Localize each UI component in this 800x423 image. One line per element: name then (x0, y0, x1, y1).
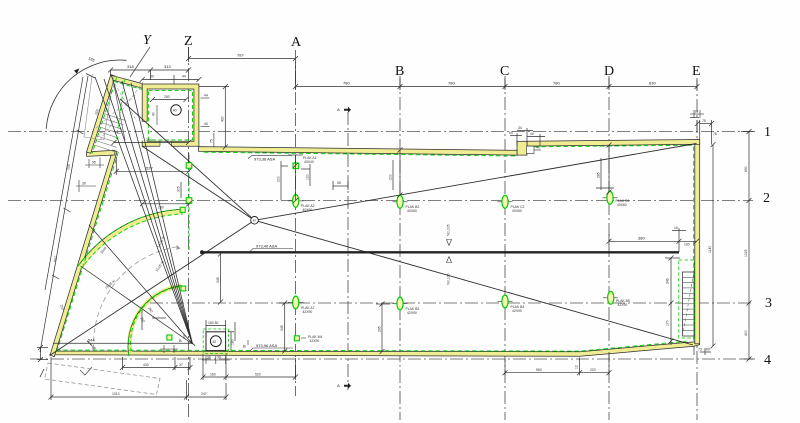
construction line apex to node (50, 220, 255, 355)
column ellipse D grid3 (608, 291, 630, 307)
svg-text:95: 95 (92, 161, 96, 165)
extra dim near E top corner (690, 110, 704, 118)
E corner dims 75/75 (690, 118, 714, 145)
extra tiny dims below jog (76, 180, 96, 192)
wall jog segment (87, 150, 115, 156)
grid line A (295, 50, 297, 396)
svg-text:220: 220 (590, 368, 596, 372)
node circle 40 (251, 217, 259, 225)
dim 304 between shaft and room (112, 140, 192, 145)
green dashed room inner outline (149, 90, 193, 139)
section marker A bottom (337, 383, 351, 389)
svg-text:69: 69 (509, 131, 513, 135)
svg-text:560: 560 (536, 368, 542, 372)
svg-text:55: 55 (337, 181, 341, 185)
column ellipse A grid2 (293, 195, 315, 213)
green dashed inside shaft west wall (92, 78, 116, 154)
svg-text:3: 3 (765, 296, 772, 311)
bottom dim row 1013/247 (49, 357, 229, 400)
svg-text:250: 250 (164, 95, 170, 99)
svg-text:247: 247 (201, 392, 207, 396)
green dashed along top right wall (527, 145, 694, 147)
column square small-arc end (181, 286, 186, 291)
dims around A1 square (281, 155, 310, 203)
svg-text:37: 37 (179, 363, 183, 367)
dimension chain A-E (293, 62, 700, 90)
svg-text:973,38 ASA: 973,38 ASA (254, 157, 275, 162)
right dimension chain x=749 (741, 129, 755, 362)
svg-text:313: 313 (164, 64, 171, 69)
rotated dim 557 on slant (53, 256, 58, 262)
tiny dim left of small squares bottom (160, 345, 178, 353)
grid line E (696, 78, 698, 420)
svg-text:75: 75 (210, 139, 214, 143)
svg-text:44: 44 (204, 94, 208, 98)
section marker A top (337, 107, 351, 113)
svg-text:34: 34 (518, 126, 522, 130)
svg-text:345: 345 (280, 325, 284, 331)
svg-text:42X90: 42X90 (303, 310, 313, 314)
section marker B left (179, 334, 184, 343)
svg-text:C: C (500, 64, 509, 79)
vertical dim below thick line at x=220 (218, 252, 223, 305)
svg-text:1025: 1025 (744, 249, 748, 257)
svg-text:44: 44 (182, 75, 186, 79)
tiny dims below ramp column (202, 356, 230, 364)
wall step connector near C (517, 141, 527, 155)
svg-text:4: 4 (764, 353, 771, 368)
svg-text:160: 160 (210, 373, 216, 377)
rotated dim 305 at Z (181, 153, 189, 198)
apex leader tick (40, 369, 44, 377)
grid label 4 right (764, 353, 771, 368)
column ellipse A grid3 (293, 296, 315, 314)
svg-text:100: 100 (684, 243, 690, 247)
rotated dim 250 on shaft wall (94, 109, 100, 116)
construction line node to NE corner (255, 144, 697, 221)
svg-text:40: 40 (212, 340, 216, 344)
svg-text:1: 1 (764, 125, 771, 140)
svg-text:2: 2 (763, 191, 770, 206)
grid label C top (500, 64, 509, 79)
svg-text:15,05 %: 15,05 % (104, 279, 116, 290)
wall bottom (south wall of hall) (50, 342, 700, 357)
centerline arc arrowheads (92, 245, 181, 351)
grid label A top (291, 35, 302, 50)
green dashed slab edge below top wall (204, 152, 517, 156)
grid line 2 (8, 200, 753, 202)
svg-text:B: B (243, 344, 246, 349)
grid line 4 (30, 358, 753, 360)
apex small dim (37, 345, 48, 362)
wall right (east wall) (695, 141, 700, 344)
svg-text:380: 380 (638, 235, 645, 240)
section line A-A (347, 112, 349, 390)
svg-text:30: 30 (207, 356, 211, 360)
bottom dim row 160/520 (201, 354, 299, 380)
svg-text:170: 170 (666, 320, 670, 326)
svg-text:780: 780 (553, 81, 560, 86)
level label 973,40 ASA (250, 243, 293, 251)
vertical dim grid3 to wall at x=382 (376, 302, 390, 355)
level label 973,38 ASA (248, 155, 292, 161)
rotated slope label upper (447, 224, 452, 245)
svg-text:42X90: 42X90 (512, 309, 522, 313)
svg-text:40: 40 (536, 146, 540, 150)
svg-text:A: A (291, 35, 302, 50)
svg-text:350: 350 (139, 316, 146, 323)
room dim 250 (150, 97, 189, 102)
rotated slope label lower (447, 257, 452, 286)
svg-text:630: 630 (649, 81, 656, 86)
svg-text:120: 120 (306, 174, 310, 180)
rotated dim 250 on slant (66, 164, 71, 170)
svg-text:285: 285 (597, 172, 601, 178)
svg-text:430: 430 (143, 363, 149, 367)
room walls (machine room at Z) (142, 84, 199, 147)
svg-text:75: 75 (702, 119, 706, 123)
svg-text:305: 305 (177, 186, 181, 192)
dimension 318/313 above shaft (108, 68, 191, 81)
grid label 1 right (764, 125, 771, 140)
left slanted dimension line outer (40, 74, 95, 353)
svg-text:40: 40 (530, 132, 534, 136)
section marker B right (243, 340, 248, 349)
column square left of ramp column (167, 335, 172, 340)
svg-text:544: 544 (88, 338, 95, 343)
svg-text:1140: 1140 (708, 246, 712, 253)
curved ramp wall inner (small arc) (128, 286, 182, 356)
svg-text:780: 780 (343, 81, 350, 86)
bottom right corner dims 73 60 (694, 347, 711, 356)
grid label E top (692, 64, 701, 79)
svg-text:73: 73 (698, 348, 702, 352)
svg-text:200: 200 (389, 174, 393, 180)
bottom dim row 430/37 (120, 357, 193, 370)
level line 973,40 (thick) (200, 250, 679, 254)
svg-text:40X60: 40X60 (407, 209, 417, 213)
column ellipse C grid2 (502, 195, 525, 213)
svg-text:40: 40 (173, 109, 177, 113)
svg-text:15,05 %: 15,05 % (155, 260, 165, 272)
svg-text:165: 165 (88, 55, 97, 63)
svg-text:557: 557 (53, 256, 58, 262)
room right dim 430 (199, 84, 229, 149)
grid line Z (188, 47, 190, 420)
svg-text:250: 250 (66, 164, 71, 170)
svg-text:75: 75 (713, 132, 717, 136)
stair treads in shaft (94, 114, 125, 152)
column ellipse B grid2 (397, 195, 419, 213)
green dashed vertical at Z below wall (188, 155, 190, 250)
stair shaft crossing dashes (96, 79, 144, 140)
wall top right section (527, 140, 700, 147)
shaft right boundary (112, 77, 125, 141)
vertical dim at D wall to column (596, 143, 614, 195)
ramp center column 40 (big square) (203, 329, 228, 353)
dimension 346/170 left of fire stair (665, 256, 680, 346)
right dimension 1140 x=713 (711, 142, 716, 348)
grid label B top (395, 64, 404, 79)
dim 180 below grid2 left (140, 201, 191, 206)
grid line B (399, 76, 401, 420)
construction line room corner to node (142, 146, 254, 220)
svg-text:160 80: 160 80 (208, 321, 218, 325)
column square PLAK M4 (294, 335, 322, 343)
fire stair in east wall (679, 260, 694, 338)
column ellipse C grid3 (502, 295, 524, 313)
svg-text:E: E (692, 64, 701, 79)
green dashed inside slanted west wall (56, 152, 119, 355)
door swing arc top-left (46, 55, 126, 128)
grid label Z (184, 34, 193, 49)
svg-text:40X40: 40X40 (304, 160, 314, 164)
column ellipse B grid3 (397, 297, 419, 315)
svg-text:30: 30 (150, 75, 154, 79)
ramp slope label 15,05 % (104, 279, 116, 290)
svg-text:40: 40 (253, 219, 257, 223)
svg-text:180: 180 (158, 206, 164, 210)
svg-text:973,96 ASA: 973,96 ASA (256, 343, 277, 348)
svg-text:360: 360 (147, 306, 154, 313)
svg-text:A: A (337, 107, 340, 112)
svg-text:D: D (604, 64, 614, 79)
rotated slope label inner ramp (155, 260, 165, 272)
svg-text:40X60: 40X60 (512, 209, 522, 213)
svg-text:A: A (337, 383, 340, 388)
svg-text:345: 345 (216, 277, 220, 283)
grid label 3 right (765, 296, 772, 311)
svg-text:430: 430 (221, 116, 225, 122)
step dims near C (510, 128, 545, 146)
svg-text:30: 30 (82, 182, 86, 186)
svg-text:200: 200 (277, 176, 281, 182)
column side ticks (288, 198, 618, 304)
svg-text:690: 690 (744, 166, 748, 172)
svg-text:318: 318 (127, 64, 134, 69)
svg-text:Y: Y (143, 33, 153, 48)
wall slanted west (jog to apex) (50, 150, 117, 357)
svg-text:42X90: 42X90 (310, 339, 320, 343)
green dashed above bottom wall (56, 341, 687, 351)
grid line 1 (8, 131, 753, 133)
svg-text:B: B (395, 64, 404, 79)
svg-text:295: 295 (378, 326, 382, 332)
svg-text:304: 304 (146, 138, 152, 142)
svg-text:60: 60 (706, 348, 710, 352)
grid line 3 (150, 302, 753, 304)
svg-text:180: 180 (231, 339, 235, 345)
dims around ramp column (206, 320, 235, 351)
column PLAK A1 square (293, 156, 317, 169)
green dashed inside east wall (693, 147, 695, 342)
svg-text:346: 346 (666, 278, 670, 284)
notch below wall right of step (527, 146, 542, 154)
svg-text:527: 527 (146, 166, 153, 171)
grid label Y (130, 33, 153, 77)
construction line node to SE corner (255, 220, 694, 345)
dimension 544 at ramp center (53, 341, 195, 346)
svg-text:1013: 1013 (112, 392, 120, 396)
green dashed shaft link (114, 82, 142, 90)
dim 527 from jog (114, 157, 192, 175)
dimension Z-A 787 (186, 47, 298, 62)
ramp centerline arc (gray dashed) (93, 247, 178, 350)
extra tiny dims near shaft bottom (85, 158, 104, 169)
grid label D top (604, 64, 614, 79)
svg-text:42X90: 42X90 (407, 311, 417, 315)
grid label 2 right (763, 191, 770, 206)
room circled 40 (171, 105, 181, 115)
level label 973,96 ASA bottom (250, 343, 293, 351)
svg-text:%0,005: %0,005 (447, 224, 451, 236)
column ellipse D grid2 (607, 191, 630, 207)
svg-text:Z: Z (184, 34, 193, 49)
fan sight rays from ramp center (81, 77, 193, 344)
svg-text:40: 40 (152, 112, 156, 116)
column square Z upper (186, 163, 192, 169)
dimension 380/100 above thick line right (607, 228, 700, 252)
vertical dim at B wall to column (393, 148, 403, 198)
column square Z grid2 (186, 198, 192, 204)
wall stair shaft west (87, 75, 116, 154)
svg-text:B: B (179, 338, 182, 343)
svg-text:45: 45 (204, 122, 208, 126)
room dim 40 rotated (152, 105, 158, 125)
dim 55 above node (333, 181, 348, 190)
dashed stall outline below apex (45, 363, 161, 395)
svg-text:12: 12 (575, 365, 579, 369)
grid line C (504, 76, 506, 420)
misc small dims left bottom (142, 310, 166, 330)
svg-text:973,40 ASA: 973,40 ASA (256, 243, 277, 248)
svg-text:780: 780 (448, 81, 455, 86)
vertical dim grid3 to wall at x=284.7 (279, 301, 293, 354)
svg-text:40X60: 40X60 (617, 203, 627, 207)
svg-text:15: 15 (674, 226, 678, 230)
svg-text:15: 15 (695, 110, 699, 114)
stair enclosure thin rails (84, 74, 114, 140)
column square big-arc end (180, 207, 185, 212)
grid line D (608, 76, 610, 420)
svg-text:40X60: 40X60 (303, 208, 313, 212)
wall link shaft to room (111, 75, 142, 88)
svg-text:42X90: 42X90 (618, 303, 628, 307)
small dims above room (140, 75, 202, 84)
svg-text:787: 787 (237, 53, 244, 58)
svg-text:400: 400 (744, 330, 748, 336)
ramp slope label 14,06 % (156, 236, 165, 249)
rotated radius label (100, 246, 108, 254)
wall top left section (199, 147, 517, 156)
svg-text:30: 30 (217, 356, 221, 360)
curved ramp wall outer (big arc) (78, 209, 183, 270)
construction line shaft to node (120, 99, 255, 220)
bottom dim row C to D (503, 352, 612, 376)
svg-text:%0,005: %0,005 (447, 273, 451, 285)
svg-text:520: 520 (255, 373, 261, 377)
